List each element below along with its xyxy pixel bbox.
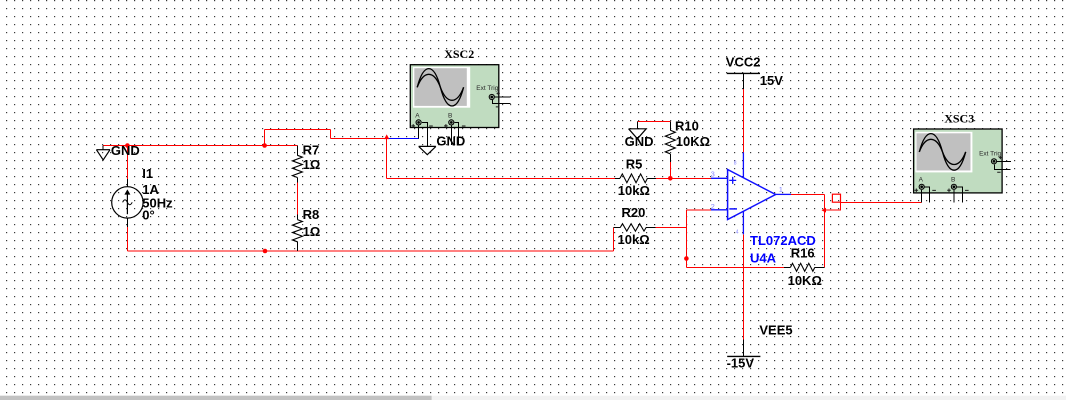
wire between R7 and R8 [296, 182, 298, 214]
GND1 stem [102, 146, 104, 150]
wire pin2 horizontal [686, 209, 711, 211]
XSC2 pin B minus hook [455, 122, 459, 145]
R7 top lead [296, 146, 298, 156]
svg-text:B: B [951, 177, 955, 184]
wire vertical x686.4 pin2 to feedback rail [685, 210, 687, 267]
svg-text:GND: GND [436, 134, 465, 149]
wire connector square stub [826, 202, 841, 210]
junction dot at 264.6,145.5 [262, 143, 267, 148]
R16 left lead [784, 266, 791, 268]
svg-text:R20: R20 [622, 205, 646, 220]
junction dot at 670.3,178.3 [668, 176, 673, 181]
svg-text:B: B [448, 112, 452, 119]
svg-text:XSC2: XSC2 [444, 47, 474, 61]
XSC2 pin A minus hook to GND2 [422, 122, 428, 146]
wire vertical from scope junction down to R5 row [386, 138, 388, 178]
resistor R16 [791, 263, 815, 271]
wire riser to R20 [613, 227, 615, 251]
R7 bottom lead [296, 177, 298, 182]
svg-text:2: 2 [711, 202, 715, 211]
svg-text:R10: R10 [675, 118, 699, 133]
XSC3 pin B plus [953, 190, 955, 202]
I1 top lead [126, 179, 128, 187]
wire I1 bottom vertical [126, 227, 128, 251]
junction arrow left at output tap [822, 208, 827, 213]
power VCC2 symbol [727, 72, 760, 74]
wire net1 upper horizontal to x330 [265, 129, 331, 131]
power VEE5 symbol [727, 355, 760, 357]
XSC2 pin A plus [418, 126, 420, 139]
wire junction to R10 bottom lead [669, 162, 671, 178]
wire blue segment into XSC2 A [387, 137, 419, 139]
resistor R20 [620, 224, 646, 231]
svg-text:-15V: -15V [727, 356, 755, 371]
svg-text:VEE5: VEE5 [759, 322, 792, 337]
junction dot at 265,251 [263, 249, 268, 254]
svg-text:4: 4 [736, 230, 739, 236]
svg-text:R7: R7 [303, 143, 320, 158]
wire R5 row left segment [387, 177, 615, 179]
XSC3 pin A minus hook [925, 187, 930, 203]
svg-text:0°: 0° [142, 208, 154, 223]
R10 bottom lead [669, 154, 671, 162]
junction dot at 686.4,258.5 [684, 256, 689, 261]
op-amp U4A TL072ACD [711, 152, 791, 234]
svg-text:XSC3: XSC3 [944, 112, 974, 126]
wire net1 step down at x330.4 [329, 130, 331, 139]
oscilloscope XSC3 [914, 129, 1011, 193]
svg-text:TL072ACD: TL072ACD [750, 233, 816, 248]
wire vertical x824.3 output to feedback [823, 194, 825, 267]
resistor R10 [665, 130, 675, 154]
svg-text:10KΩ: 10KΩ [788, 273, 822, 288]
svg-text:Ext Trig: Ext Trig [476, 85, 498, 92]
R20 right lead [646, 226, 656, 228]
resistor R5 [620, 174, 647, 183]
svg-text:I1: I1 [142, 166, 153, 181]
XSC3 pin B minus hook [957, 187, 963, 203]
svg-text:15V: 15V [760, 73, 783, 88]
wire net1 horizontal into scope junction [330, 137, 386, 139]
wire connector to XSC3 A [841, 201, 922, 203]
R20 left lead [614, 226, 621, 228]
junction dot at 127.4,145.5 [125, 143, 130, 148]
svg-text:10kΩ: 10kΩ [618, 232, 650, 247]
wire feedback rail to R16 [686, 266, 784, 268]
svg-text:GND: GND [111, 143, 140, 158]
VEE5 stem [742, 339, 744, 356]
R16 right lead [815, 266, 824, 268]
svg-text:3: 3 [711, 170, 715, 179]
wire net1 top horizontal GND1 to junction [103, 145, 265, 147]
svg-text:U4A: U4A [750, 250, 777, 265]
R5 right lead [648, 177, 657, 179]
svg-text:VCC2: VCC2 [726, 55, 761, 70]
resistor R7 [292, 155, 302, 177]
ground GND1 [96, 150, 110, 160]
wire net1 vertical riser at x264.6 [264, 130, 266, 146]
svg-text:1Ω: 1Ω [303, 157, 321, 172]
wire net1 junction to R7 top [265, 145, 298, 147]
svg-text:GND: GND [625, 134, 654, 149]
R8 top lead [296, 215, 298, 220]
wire R5 to op-amp pin3 [656, 177, 711, 179]
XSC3 pin A plus [921, 190, 923, 202]
I1 bottom lead [126, 218, 128, 227]
VCC2 stem [742, 73, 744, 88]
svg-text:R8: R8 [303, 207, 320, 222]
scrollbar track [0, 396, 1066, 400]
svg-text:Ext Trig: Ext Trig [979, 150, 1001, 157]
scrollbar thumb [0, 396, 432, 400]
XSC2 pin B plus [450, 126, 452, 146]
R5 left lead [615, 177, 620, 179]
GND3 stem [636, 121, 638, 128]
wire VEE5 vertical red [742, 234, 744, 339]
junction arrow up at scope tap [384, 134, 389, 139]
svg-text:10kΩ: 10kΩ [618, 183, 650, 198]
wire GND3 to R10 top [637, 120, 670, 122]
svg-text:1: 1 [779, 185, 783, 194]
oscilloscope XSC2 [410, 65, 510, 128]
svg-text:8: 8 [734, 161, 737, 167]
svg-text:10KΩ: 10KΩ [676, 134, 710, 149]
current source I1 [112, 187, 143, 218]
svg-text:1Ω: 1Ω [303, 224, 321, 239]
ground GND2 below XSC2 [419, 146, 436, 154]
wire VCC2 vertical red [742, 89, 744, 153]
wire R20 to vertical x686.4 [656, 226, 687, 228]
ground GND3 near R10 [629, 129, 647, 139]
resistor R8 [292, 220, 302, 242]
R8 bottom lead [296, 242, 298, 251]
wire I1 top vertical [126, 146, 128, 180]
on-page connector square [832, 194, 840, 202]
wire bottom rail [127, 250, 613, 252]
svg-text:A: A [919, 177, 924, 184]
wire output horizontal [791, 193, 824, 195]
svg-text:A: A [415, 112, 420, 119]
R10 top lead [669, 121, 671, 130]
svg-text:R5: R5 [626, 157, 643, 172]
